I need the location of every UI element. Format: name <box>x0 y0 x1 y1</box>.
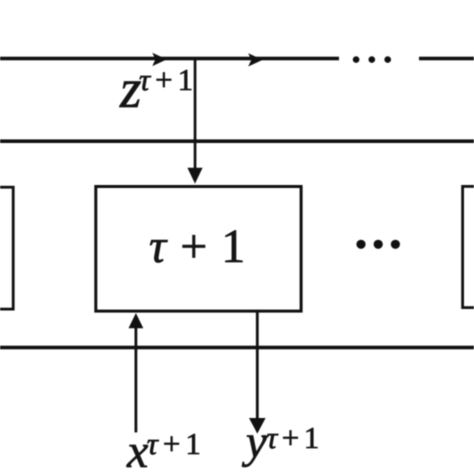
ellipsis dots in middle band <box>356 240 400 249</box>
wire: lower boundary line of the middle band <box>0 346 474 350</box>
arrowhead: down arrow into block top <box>187 168 202 184</box>
wire: vertical shaft of y output arrow <box>256 311 259 419</box>
arrowhead: second right-pointing arrow on top line <box>248 53 262 66</box>
block: left partial box (clipped at left edge) <box>0 187 13 309</box>
wire: top horizontal signal line, right segment <box>419 57 474 61</box>
ellipsis dots on top line <box>353 56 391 63</box>
wire: vertical drop from top line to block (z input) <box>194 58 197 169</box>
label: z^{tau+1} on vertical drop wire <box>120 61 141 116</box>
arrowhead: down arrow tip of y output <box>249 418 266 434</box>
arrowhead: up arrow into block bottom (x input) <box>129 313 144 328</box>
wire: vertical shaft of x input arrow <box>135 327 138 432</box>
label: y^{tau+1} under down arrow <box>246 419 267 466</box>
label: x^{tau+1} under up arrow <box>127 428 148 474</box>
arrowhead: first right-pointing arrow on top line <box>152 53 167 66</box>
wire: upper boundary line of the middle band <box>0 139 474 143</box>
block: right partial box (clipped at right edge) <box>463 186 474 307</box>
block: main box tau+1 <box>96 187 301 312</box>
label: tau + 1 inside main box <box>149 223 246 271</box>
wire: top horizontal signal line, left segment <box>0 57 339 61</box>
